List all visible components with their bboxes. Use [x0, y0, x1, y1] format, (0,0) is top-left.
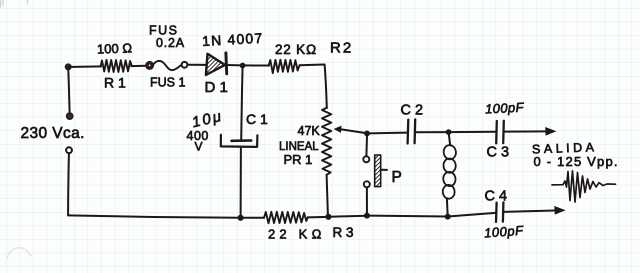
potentiometer PR1 resistive element — [322, 108, 331, 175]
node coil top junction — [446, 129, 452, 135]
wire C1 bottom to bottom rail — [240, 147, 242, 218]
capacitor C1 — [221, 135, 258, 147]
svg-text:C 1: C 1 — [246, 111, 268, 127]
pushbutton P — [363, 136, 387, 216]
node mid-rail pushbutton junction — [364, 131, 370, 137]
resistor R2 — [269, 60, 300, 73]
svg-text:C 3: C 3 — [487, 145, 510, 161]
node potentiometer bottom junction — [325, 214, 331, 220]
inductor L coil — [442, 132, 456, 216]
svg-text:R2: R2 — [330, 40, 353, 57]
svg-text:C 4: C 4 — [485, 189, 508, 205]
wire fuse to D1 — [188, 64, 207, 66]
fuse FUS1 — [147, 61, 188, 70]
wire C1 branch vertical from diode node — [241, 66, 242, 140]
capacitor C2 — [408, 119, 416, 143]
wire bottom rail pushbutton node to coil node — [367, 215, 448, 218]
svg-text:R 1: R 1 — [104, 75, 126, 91]
waveform burst symbol — [552, 171, 616, 202]
wire R2 to corner and down to potentiometer — [300, 65, 327, 109]
wire R3 to pot bottom node — [308, 216, 329, 219]
svg-text:47K: 47K — [298, 124, 321, 138]
wire node to R3 — [241, 217, 264, 219]
wire mid rail node to C2 — [367, 132, 407, 135]
svg-text:100pF: 100pF — [485, 99, 525, 116]
wire bottom rail pot node to pushbutton node — [328, 216, 367, 217]
output arrow lower — [554, 206, 565, 215]
wire R1 to fuse — [131, 65, 146, 67]
wire C2 to coil node — [415, 131, 449, 133]
node top-left corner junction — [66, 65, 71, 70]
wire D1 to node — [226, 64, 242, 66]
node diode-C1 junction — [240, 63, 246, 69]
wire bottom rail left segment — [68, 215, 241, 217]
wire top rail: corner to R1 — [68, 65, 101, 68]
svg-text:D 1: D 1 — [205, 79, 228, 96]
diode D1 — [206, 53, 227, 75]
potentiometer PR1 wiper arrow — [334, 126, 367, 134]
pencil arc mark bottom-left (faint) — [7, 248, 31, 258]
svg-text:100pF: 100pF — [484, 223, 525, 241]
wire input left vertical upper — [68, 67, 69, 113]
wire node to R2 — [243, 64, 269, 66]
node C1 bottom junction — [238, 215, 244, 221]
svg-text:22 KΩ: 22 KΩ — [268, 227, 326, 242]
node coil bottom junction — [445, 214, 451, 220]
svg-text:0 - 125 Vpp.: 0 - 125 Vpp. — [534, 154, 619, 169]
terminal 230Vca lower — [66, 147, 72, 153]
svg-text:P: P — [392, 169, 402, 186]
svg-text:FUS 1: FUS 1 — [150, 76, 185, 90]
wire C3 to output arrow — [504, 130, 546, 132]
terminal 230Vca upper — [67, 113, 73, 119]
svg-text:100 Ω: 100 Ω — [97, 40, 133, 56]
svg-text:LINEAL: LINEAL — [279, 141, 319, 153]
svg-text:22 KΩ: 22 KΩ — [275, 42, 317, 57]
output arrow upper — [545, 127, 556, 136]
capacitor C4 — [496, 202, 503, 222]
capacitor C3 — [496, 121, 504, 144]
wire bottom rail coil node to C4 — [448, 213, 496, 217]
svg-text:R 3: R 3 — [333, 225, 354, 240]
svg-text:V: V — [195, 140, 203, 154]
svg-text:0.2A: 0.2A — [156, 36, 185, 50]
svg-text:C 2: C 2 — [401, 103, 424, 119]
svg-text:1N 4007: 1N 4007 — [202, 30, 264, 49]
node pushbutton bottom junction — [364, 213, 370, 219]
wire input left vertical lower — [67, 153, 70, 215]
wire potentiometer bottom to node — [327, 175, 328, 216]
svg-text:230 Vca.: 230 Vca. — [21, 125, 85, 142]
resistor R1 — [101, 60, 132, 72]
svg-text:PR 1: PR 1 — [284, 152, 313, 167]
wire coil node to C3 — [449, 131, 496, 133]
wire C4 to output arrow — [503, 211, 555, 212]
scan smudge marks top-left (faint) — [1, 0, 28, 7]
resistor R3 — [264, 212, 308, 224]
